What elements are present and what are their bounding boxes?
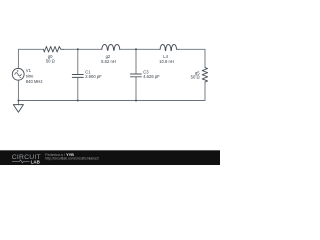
svg-text:2.900 pF: 2.900 pF <box>85 74 102 79</box>
svg-text:840 MHz: 840 MHz <box>26 79 43 84</box>
svg-text:5.62 nH: 5.62 nH <box>101 59 116 64</box>
svg-text:sine: sine <box>26 74 34 79</box>
svg-text:50 Ω: 50 Ω <box>46 58 55 63</box>
svg-text:10.8 nH: 10.8 nH <box>159 59 174 64</box>
svg-text:V1: V1 <box>26 68 32 73</box>
svg-text:http://circuitlab.com/circuit/: http://circuitlab.com/circuit/cnkaha2/ <box>45 156 99 160</box>
svg-text:LAB: LAB <box>31 159 41 164</box>
svg-text:4.626 pF: 4.626 pF <box>143 74 160 79</box>
svg-text:50 Ω: 50 Ω <box>191 75 200 80</box>
